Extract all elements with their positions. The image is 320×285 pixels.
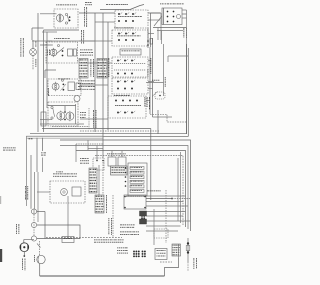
bus wire dashed <box>80 130 160 132</box>
surface element E1 <box>56 13 63 23</box>
fuse component <box>186 238 190 262</box>
wire <box>149 47 151 114</box>
wire <box>148 33 154 35</box>
wire <box>163 44 165 96</box>
wire <box>32 55 34 70</box>
wire <box>102 13 104 158</box>
switch box SW2 <box>112 30 148 46</box>
wire <box>152 38 154 117</box>
label BK col <box>164 77 167 87</box>
wire dashed <box>160 261 172 263</box>
wire <box>33 209 35 215</box>
harness wire <box>146 230 178 232</box>
S2 sub box <box>68 49 73 56</box>
light box <box>155 249 167 260</box>
connector grid G2 <box>142 251 146 258</box>
wire <box>157 28 159 41</box>
switch box SW5 <box>108 96 146 118</box>
scan artifact2 <box>0 196 1 204</box>
wire <box>147 28 149 48</box>
SW4 contacts row2 <box>117 88 133 90</box>
check wire dashed <box>46 237 122 239</box>
control box outline <box>27 136 104 206</box>
wire <box>95 21 115 23</box>
label fuse <box>194 258 197 269</box>
wire <box>39 241 41 255</box>
label left margin <box>3 148 16 151</box>
label BK <box>152 79 160 82</box>
wire <box>80 84 108 86</box>
wire <box>34 172 36 209</box>
label csa check <box>120 225 135 228</box>
switch box SW4 <box>112 78 148 94</box>
wire <box>23 252 25 255</box>
wire <box>42 138 44 151</box>
wire <box>146 100 150 102</box>
terminal TB1 <box>31 209 36 214</box>
wire <box>36 138 38 172</box>
harness wire <box>146 215 183 217</box>
door latch box <box>50 181 85 203</box>
wire <box>44 70 46 78</box>
wire <box>32 40 52 42</box>
dark blob <box>141 215 145 223</box>
harness label <box>147 190 161 193</box>
harness wire <box>146 201 184 203</box>
wire <box>40 119 52 121</box>
wire <box>37 211 45 213</box>
wire <box>79 40 112 42</box>
label top harness <box>106 3 128 6</box>
connector P5 <box>172 244 181 256</box>
latch relay text <box>131 167 143 191</box>
harness wire <box>146 220 191 222</box>
SW2 contacts row2 <box>118 39 134 41</box>
bottom long wire <box>40 275 165 277</box>
label L1 BK <box>25 186 28 200</box>
wire <box>187 262 189 271</box>
label right of SW3 <box>150 58 153 74</box>
SW2 inner label <box>117 35 141 38</box>
wire dashed <box>114 69 146 71</box>
bake element E4a <box>57 111 65 121</box>
oven lamp B1 <box>37 255 45 263</box>
wire <box>148 19 160 21</box>
fuse box F2 <box>118 157 126 166</box>
wire <box>100 9 130 11</box>
wire <box>75 144 77 162</box>
wire dashed <box>165 190 167 243</box>
K1 inner <box>0 196 146 209</box>
junction dots2 <box>64 119 66 121</box>
switch box S3 <box>48 79 81 96</box>
bus wire <box>103 136 188 138</box>
junction dots <box>147 44 149 46</box>
wire <box>157 30 183 32</box>
switch contacts S3 <box>61 79 67 90</box>
small series box <box>150 39 153 45</box>
element row wire <box>40 123 84 125</box>
wire right main2 <box>187 48 189 137</box>
staircase wire <box>76 151 186 228</box>
wire dashed <box>172 198 190 200</box>
wire <box>150 129 152 201</box>
wire <box>42 31 57 33</box>
wire <box>37 13 39 132</box>
wire <box>121 151 123 158</box>
label bulb <box>33 255 36 262</box>
wire <box>163 8 165 25</box>
label right of S1 <box>84 7 87 27</box>
wire <box>40 44 53 46</box>
SW4 contacts row1 <box>117 80 135 83</box>
label motor <box>22 259 25 271</box>
switch contacts S2 <box>56 45 64 57</box>
switch box S2 <box>46 42 78 63</box>
element box E3b <box>68 82 75 91</box>
label LF surface unit <box>54 37 70 40</box>
wire <box>148 88 153 90</box>
bottom step wire <box>165 258 179 276</box>
junction dot <box>171 198 173 200</box>
SW5 inner label <box>115 104 141 107</box>
wire dashed <box>88 108 90 130</box>
SW1 inner label <box>118 15 142 18</box>
transformer T1 <box>111 166 128 175</box>
label below S1 <box>81 30 84 44</box>
label above SW2 <box>114 27 134 30</box>
surface element E2 <box>50 48 57 57</box>
staircase wire <box>180 152 182 223</box>
wire <box>75 104 77 124</box>
wire <box>44 212 46 239</box>
SW5 contacts row2 <box>117 111 135 114</box>
wire <box>167 56 169 62</box>
label mid <box>41 153 46 156</box>
T1 text <box>112 167 126 173</box>
wire <box>80 118 108 120</box>
wire <box>96 146 98 161</box>
connector P4 <box>95 195 104 213</box>
wire right main <box>186 44 188 134</box>
label latch <box>53 174 77 177</box>
thermostat symbol <box>152 92 165 100</box>
control box top inner <box>27 137 104 139</box>
wire <box>148 64 151 66</box>
wire <box>79 12 115 14</box>
label center col <box>93 110 96 128</box>
wire <box>186 10 188 134</box>
label left in S2 <box>47 50 50 56</box>
wire <box>111 151 113 158</box>
wire <box>148 60 151 62</box>
wire diagonal <box>130 5 144 10</box>
label NO-C <box>16 224 19 234</box>
wire <box>148 12 160 14</box>
K1 label <box>126 195 144 198</box>
switch contacts S4 <box>51 106 55 119</box>
label between strips <box>91 59 94 77</box>
staircase wire <box>60 146 188 230</box>
label center bottom <box>109 218 112 235</box>
TOD text <box>64 237 72 240</box>
label S3 <box>47 88 50 96</box>
wire corner right <box>150 114 187 122</box>
wire <box>40 13 57 15</box>
harness wire <box>146 211 186 213</box>
SW1 contacts row1 <box>118 12 136 15</box>
wire <box>112 195 114 237</box>
SW2 contacts row1 <box>118 32 136 35</box>
motor feed diagonal <box>37 244 41 248</box>
terminal TB3 <box>31 236 36 241</box>
wire <box>87 140 89 150</box>
wire <box>146 82 164 84</box>
SW1 contacts row2 <box>118 20 134 22</box>
junction dots <box>147 40 149 42</box>
wire <box>67 196 69 239</box>
inner component <box>93 158 104 170</box>
wire <box>31 28 33 40</box>
label fuses <box>107 153 126 156</box>
staircase wire <box>95 156 183 226</box>
label wire color <box>35 41 38 47</box>
terminal TB2 <box>31 222 36 227</box>
label above S3 <box>58 78 70 81</box>
wire <box>98 165 100 196</box>
latch relay box <box>128 163 147 196</box>
wire <box>33 214 35 236</box>
wire <box>43 30 45 132</box>
connector P1 <box>79 59 88 79</box>
surface element E3 <box>52 82 59 91</box>
connector grid G1 <box>133 251 140 258</box>
wire <box>80 62 112 64</box>
label P <box>29 138 33 141</box>
element box E3c <box>76 83 80 90</box>
label RF surface unit <box>56 4 77 7</box>
harness wire <box>146 205 188 207</box>
SW3 contacts row1 <box>117 59 135 62</box>
label P2 rows <box>78 81 95 90</box>
lamp A1 <box>30 49 37 56</box>
element row wire2 <box>52 126 89 128</box>
switch contacts S1 <box>65 13 70 24</box>
wire <box>37 191 50 193</box>
label P1 header <box>80 50 93 56</box>
wire <box>39 264 41 276</box>
connector P3 <box>89 168 97 193</box>
light box label <box>157 250 166 256</box>
label bottom row <box>120 232 139 235</box>
wire <box>32 40 34 49</box>
wire <box>153 209 155 245</box>
TOD box <box>62 237 74 243</box>
junction dots <box>64 111 66 113</box>
label top left block <box>85 2 92 5</box>
wire <box>146 198 172 200</box>
label A1 surface light <box>21 38 24 57</box>
wire <box>161 31 163 45</box>
motor M1 <box>20 243 29 252</box>
switch box SW3 <box>112 57 148 77</box>
wire <box>64 106 66 111</box>
wire <box>47 40 95 42</box>
label P4 <box>105 195 108 213</box>
junction dot <box>23 255 25 257</box>
label S4 <box>80 112 86 118</box>
latch sub <box>72 187 81 196</box>
fuse box F1 <box>108 157 116 166</box>
switch box S1 <box>54 9 78 28</box>
wire diag <box>154 16 162 26</box>
wire <box>76 143 103 145</box>
wire <box>153 116 173 118</box>
harness wire <box>146 225 181 227</box>
staircase wire <box>60 140 191 231</box>
switch box S4 <box>48 102 78 126</box>
relay box K1 <box>124 195 146 209</box>
dark block A <box>140 211 147 216</box>
label right of P2 <box>108 58 111 77</box>
door switch box <box>162 8 182 25</box>
SW5 contacts row1 <box>115 100 138 102</box>
harness wire <box>146 195 186 197</box>
latch relay cells <box>130 167 144 193</box>
bus wire <box>30 133 187 135</box>
wire <box>48 105 76 107</box>
wire <box>42 158 44 173</box>
lamp switch box <box>41 112 46 126</box>
wire <box>46 32 48 108</box>
small box <box>154 229 168 238</box>
relay dots col2 <box>125 167 127 187</box>
label oven light <box>184 28 187 38</box>
label CB check <box>94 240 124 243</box>
door sw dots col1 <box>167 11 169 23</box>
switch box SW1 <box>115 10 148 28</box>
wire <box>178 244 180 258</box>
wire <box>182 13 187 15</box>
wire dashed <box>114 63 146 65</box>
S2 sub box2 <box>74 49 77 56</box>
wire <box>45 69 56 71</box>
wire <box>94 13 96 132</box>
wire <box>44 29 80 31</box>
wire <box>30 155 32 209</box>
label inner box <box>80 158 89 164</box>
wire <box>37 238 80 240</box>
staircase wire <box>177 158 179 221</box>
wire <box>23 240 25 244</box>
wire <box>151 12 162 14</box>
label above door box <box>160 3 184 6</box>
label 3rows <box>117 248 128 254</box>
wire <box>168 55 188 57</box>
wire <box>153 27 187 29</box>
SW3 contacts row2 <box>117 73 133 75</box>
relay dots col <box>125 167 127 169</box>
connector P2 <box>97 59 107 79</box>
wire <box>88 148 103 150</box>
dark block B <box>140 219 147 224</box>
wire <box>37 225 80 239</box>
label above SW4 <box>114 94 130 97</box>
wire <box>37 172 39 222</box>
broil element E4b <box>66 111 74 121</box>
bake label text <box>122 50 140 53</box>
wire <box>107 22 109 130</box>
door sw dots col2 <box>173 11 175 23</box>
bus wire <box>42 128 151 130</box>
oven lamp symbol <box>177 15 181 19</box>
pilot lamp <box>74 96 80 102</box>
label mid col <box>147 69 150 76</box>
label wire color <box>35 59 38 67</box>
junction dots <box>96 160 104 162</box>
scan artifact <box>0 249 2 262</box>
wire <box>182 17 187 19</box>
label 10A <box>56 171 63 174</box>
wire <box>148 81 154 83</box>
label right of SW5 <box>148 97 151 109</box>
label SW5 right <box>145 97 148 107</box>
wire <box>102 162 104 196</box>
wire <box>160 13 162 40</box>
wire <box>182 9 187 11</box>
latch motor <box>61 189 68 196</box>
bake element label box <box>120 49 141 55</box>
wire <box>157 110 159 134</box>
wire <box>150 13 152 47</box>
wire <box>32 27 44 29</box>
wire <box>24 239 34 241</box>
